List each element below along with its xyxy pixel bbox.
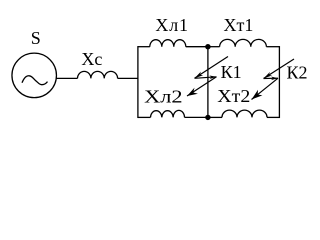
wire: Xc to left bus	[118, 77, 138, 79]
node a (junction dot top)	[205, 44, 210, 49]
svg-text:Xт1: Xт1	[224, 15, 254, 35]
right bus (vertical)	[278, 46, 280, 118]
source S (generator circle)	[12, 53, 57, 98]
wire: node a to Xt1	[208, 46, 220, 48]
inductor Xt2 (3 arcs)	[222, 110, 267, 117]
svg-text:Xт2: Xт2	[217, 86, 250, 106]
wire: left bus to Xl2	[138, 116, 151, 118]
inductor Xt1 (3 arcs)	[220, 39, 267, 46]
wire: Xt2 to right bus	[267, 116, 279, 118]
svg-text:S: S	[31, 28, 41, 48]
inductor Xl1 (3 arcs)	[150, 40, 186, 47]
sine wave inside source	[22, 76, 48, 85]
fault arrow K1 (lightning bolt)	[187, 57, 228, 97]
wire: node b to Xt2	[208, 116, 222, 118]
wire: Xl2 to node b	[185, 116, 208, 118]
wire: source to Xc	[56, 77, 77, 79]
svg-text:К1: К1	[221, 62, 242, 82]
wire: left bus to Xl1	[138, 46, 150, 48]
node b (junction dot bottom)	[205, 115, 210, 120]
inductor Xl2 (3 arcs)	[151, 110, 185, 117]
left bus (vertical)	[137, 46, 139, 118]
reactor Xc (inductor, 3 arcs)	[78, 71, 118, 78]
wire: Xl1 to node a	[186, 46, 208, 48]
svg-text:Xл1: Xл1	[155, 15, 188, 35]
fault arrow K2 (lightning bolt)	[252, 59, 295, 100]
svg-text:Xл2: Xл2	[144, 87, 183, 107]
svg-text:К2: К2	[287, 63, 308, 83]
svg-text:Xc: Xc	[81, 49, 102, 69]
wire: Xt1 to right bus	[266, 46, 279, 48]
middle bus (vertical, node a to node b)	[207, 47, 209, 118]
